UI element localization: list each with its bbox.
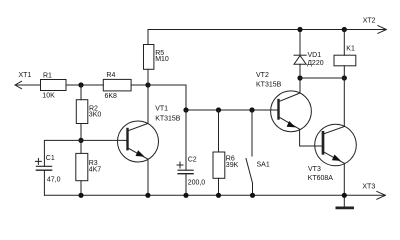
wire R4 to node B — [131, 84, 148, 86]
svg-text:10K: 10K — [42, 93, 55, 100]
wire R6 to bottom rail — [218, 178, 220, 195]
terminal XT1 — [15, 81, 41, 88]
wire R5 bottom to node B — [147, 69, 149, 85]
relay coil K1 — [334, 30, 356, 79]
resistor R4 — [103, 79, 131, 91]
svg-text:200,0: 200,0 — [188, 179, 206, 186]
svg-text:XT3: XT3 — [362, 184, 375, 191]
node J junction — [342, 27, 347, 32]
node H junction — [342, 75, 347, 80]
node K junction — [78, 193, 83, 198]
top rail wire — [148, 29, 386, 31]
node E junction — [216, 107, 221, 112]
svg-text:C2: C2 — [188, 157, 197, 164]
switch SA1 — [246, 110, 253, 195]
node I junction — [297, 27, 302, 32]
svg-text:XT1: XT1 — [19, 72, 32, 79]
svg-text:47,0: 47,0 — [47, 177, 61, 184]
svg-text:VD1: VD1 — [308, 52, 322, 59]
wire node C to C1 — [44, 140, 81, 166]
svg-text:K1: K1 — [346, 46, 355, 53]
node C junction — [78, 138, 83, 143]
diode VD1 — [294, 30, 306, 79]
resistor R3 — [76, 153, 88, 180]
capacitor C2 — [178, 170, 193, 174]
resistor R5 — [144, 45, 154, 70]
node A junction — [78, 82, 83, 87]
transistor VT1 — [118, 121, 159, 162]
wire VT2 collector — [299, 78, 301, 93]
resistor R2 — [76, 100, 88, 124]
wire VT2 emitter to VT3 base — [300, 129, 322, 146]
resistor R1 — [41, 80, 67, 91]
wire C1 to bottom rail — [43, 170, 45, 195]
wire node E to R6 — [218, 110, 220, 152]
svg-text:VT2: VT2 — [256, 72, 269, 79]
svg-text:39K: 39K — [226, 162, 239, 169]
svg-text:XT2: XT2 — [363, 17, 376, 24]
bottom rail wire — [44, 194, 385, 196]
ground — [337, 195, 353, 208]
wire VT1 collector — [147, 85, 149, 123]
wire R1 to node A — [66, 84, 103, 86]
wire node C to R3 — [80, 140, 82, 153]
node M junction — [183, 193, 188, 198]
node G junction — [297, 75, 302, 80]
svg-text:R4: R4 — [106, 72, 115, 79]
wire C2 to bottom rail — [185, 174, 187, 196]
mid rail wire to VT2 base — [186, 109, 278, 111]
svg-text:SA1: SA1 — [257, 162, 270, 169]
svg-text:KT315B: KT315B — [155, 115, 181, 122]
terminal XT3 — [377, 191, 386, 199]
wire node C to VT1 base — [81, 139, 127, 141]
svg-text:VT3: VT3 — [308, 166, 321, 173]
wire R2 to node C — [80, 124, 82, 141]
node P junction — [342, 193, 347, 198]
wire VT1 emitter — [147, 159, 149, 195]
svg-text:Д220: Д220 — [307, 60, 324, 67]
transistor VT2 — [271, 91, 312, 132]
svg-text:KT315B: KT315B — [256, 82, 282, 89]
plus sign C1 — [35, 158, 41, 164]
plus sign C2 — [177, 162, 183, 168]
node N junction — [216, 193, 221, 198]
svg-text:KT608A: KT608A — [308, 175, 334, 182]
svg-text:M10: M10 — [155, 56, 169, 63]
wire node D to C2 — [185, 110, 187, 170]
wire R3 to bottom rail — [80, 181, 82, 196]
terminal XT2 — [378, 26, 387, 34]
resistor R6 — [213, 152, 225, 178]
transistor VT3 — [315, 124, 357, 166]
node B junction — [145, 82, 150, 87]
capacitor C1 — [36, 166, 51, 170]
node O junction — [250, 193, 255, 198]
svg-text:4K7: 4K7 — [89, 166, 102, 173]
node F junction — [249, 107, 254, 112]
wire node B to mid rail corner — [148, 85, 186, 110]
svg-text:3K0: 3K0 — [89, 111, 102, 118]
svg-text:R1: R1 — [43, 73, 52, 80]
svg-text:C1: C1 — [46, 155, 55, 162]
node L junction — [145, 193, 150, 198]
svg-text:VT1: VT1 — [155, 106, 168, 113]
node D junction — [183, 107, 188, 112]
wire VT3 collector — [343, 78, 345, 127]
svg-text:6K8: 6K8 — [105, 93, 118, 100]
wire VT3 emitter — [343, 163, 345, 195]
wire node G to node H — [300, 77, 344, 79]
wire node A to R2 — [80, 85, 82, 100]
wire R5 top to rail — [147, 30, 149, 45]
